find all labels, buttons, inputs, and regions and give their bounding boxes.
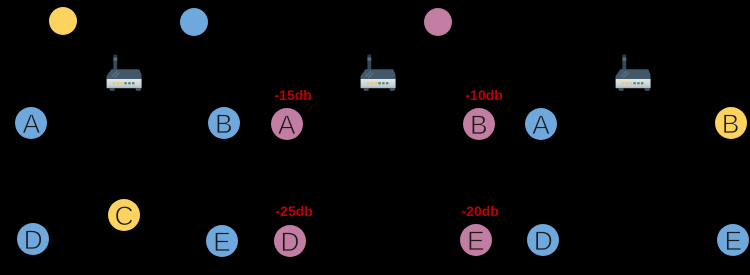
node D (blue, left) (17, 223, 49, 255)
node E (pink) (460, 224, 492, 256)
node B (yellow, right) (715, 107, 747, 139)
label -25db (276, 204, 313, 218)
label -20db (462, 204, 499, 218)
node D (pink) (274, 225, 306, 257)
node E (blue, right) (717, 224, 749, 256)
node C (yellow) (108, 199, 140, 231)
node D (blue, right) (527, 224, 559, 256)
node: pink station top-right (424, 8, 452, 36)
label -10db (466, 88, 503, 102)
node A (blue, right) (525, 108, 557, 140)
node B (blue, middle) (208, 107, 240, 139)
node A (blue, left) (15, 107, 47, 139)
label -15db (275, 88, 312, 102)
node E (blue, middle) (206, 225, 238, 257)
router AP1 (106, 54, 142, 92)
node B (pink) (463, 108, 495, 140)
node: blue station top-middle (180, 8, 208, 36)
router AP2 (360, 54, 396, 92)
router AP3 (615, 54, 651, 92)
node: yellow station top-left (49, 7, 77, 35)
node A (pink) (271, 108, 303, 140)
